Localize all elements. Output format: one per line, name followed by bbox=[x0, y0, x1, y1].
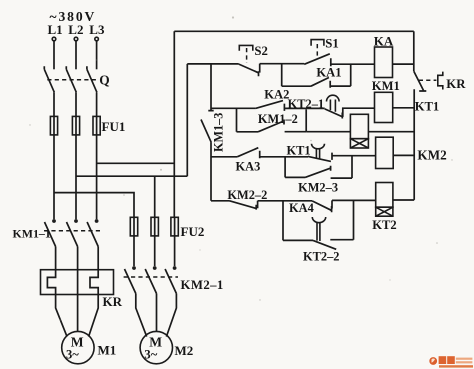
wire FU2 c to KM2-1 bbox=[174, 236, 176, 266]
wire S1 to KA coil bbox=[331, 63, 375, 65]
switch Q linkage bbox=[47, 79, 99, 81]
thermal contact KR bbox=[414, 71, 466, 91]
svg-text:KT1: KT1 bbox=[415, 100, 440, 114]
wire KT1 contact to KM2 coil bbox=[332, 155, 376, 157]
wire L2 drop to switch bbox=[75, 41, 77, 69]
wire L3 FU1 to KM1-1 bbox=[96, 135, 98, 219]
contact KA4 bbox=[289, 200, 376, 215]
wire left rail bbox=[186, 64, 188, 176]
wire L1 tap bus to FU2 a bbox=[54, 193, 134, 218]
timer coil KT2 bbox=[372, 183, 414, 232]
wire KA1 right riser bbox=[350, 64, 352, 86]
motor M2 bbox=[140, 331, 172, 363]
wire L3 to FU1 bbox=[96, 92, 98, 116]
wire control top bus bbox=[174, 30, 413, 32]
svg-text:KA1: KA1 bbox=[316, 66, 341, 80]
switch Q pole 3 bbox=[87, 66, 97, 92]
relay coil KA bbox=[374, 34, 414, 78]
contact KM2-2 bbox=[227, 188, 312, 210]
contactor KM2-1 linkage bbox=[124, 276, 178, 278]
wire L1 to FU1 bbox=[53, 92, 55, 116]
wire L3 tap bus to control feeder bbox=[97, 162, 175, 164]
svg-text:KM1–1: KM1–1 bbox=[13, 227, 51, 241]
svg-text:KR: KR bbox=[446, 77, 466, 91]
svg-text:L1: L1 bbox=[48, 22, 63, 37]
contactor KM1-1 pole 1 bbox=[45, 219, 56, 246]
motor M1 bbox=[62, 331, 94, 363]
KR heater phase 1 bbox=[47, 270, 55, 295]
svg-text:L2: L2 bbox=[68, 22, 83, 37]
wire FU2 b to KM2-1 bbox=[154, 236, 156, 266]
switch Q pole 2 bbox=[66, 66, 76, 92]
fuse FU2 b bbox=[151, 217, 158, 236]
svg-text:KM1: KM1 bbox=[372, 79, 400, 93]
wire KT1 rung bbox=[306, 131, 350, 133]
node L1 bbox=[48, 22, 63, 41]
wire rung1 from left rail bbox=[187, 63, 239, 65]
svg-text:KT2–1: KT2–1 bbox=[288, 97, 325, 111]
svg-text:KT2–2: KT2–2 bbox=[303, 249, 340, 263]
contact KM2-3 branch bbox=[285, 156, 352, 195]
fuse FU1 a bbox=[50, 116, 57, 134]
wire L1 drop to switch bbox=[53, 41, 55, 69]
contact KA2 bbox=[256, 87, 325, 111]
contact KA3 bbox=[236, 148, 309, 174]
wire L3 drop to switch bbox=[96, 41, 98, 69]
watermark logo bbox=[429, 356, 473, 367]
wire S2 to S1 bbox=[260, 63, 305, 65]
contact KM1-2 branch bbox=[237, 108, 307, 132]
switch Q pole 1 bbox=[44, 66, 54, 92]
wire right rail upper bbox=[413, 31, 415, 71]
wire KM2-1 to motor M2 bbox=[136, 294, 177, 337]
contactor KM1-1 pole 3 bbox=[87, 219, 98, 246]
wire junction rung2 to KT1 rung bbox=[305, 109, 307, 131]
svg-text:KA4: KA4 bbox=[289, 201, 314, 215]
wire L2 tap bus to left rail bbox=[76, 175, 187, 177]
svg-text:3~: 3~ bbox=[66, 347, 79, 361]
fuse FU2 c bbox=[171, 217, 178, 236]
timed contact KT2-1 bbox=[288, 95, 375, 118]
wire rung2 bbox=[211, 107, 256, 109]
svg-text:KM1–3: KM1–3 bbox=[212, 113, 226, 152]
wire rung3 bbox=[211, 156, 237, 158]
svg-text:S2: S2 bbox=[254, 44, 268, 58]
node L2 bbox=[68, 22, 83, 41]
svg-text:KT1: KT1 bbox=[287, 144, 311, 158]
svg-text:KR: KR bbox=[103, 294, 123, 309]
timed contact KT2-2 branch bbox=[283, 200, 354, 263]
wire rung4 bbox=[211, 200, 230, 202]
contactor KM2-1 pole 2 bbox=[145, 266, 156, 293]
node branch to KA1 bbox=[281, 64, 283, 86]
contactor KM1-1 linkage bbox=[44, 230, 100, 232]
svg-text:KT2: KT2 bbox=[372, 218, 397, 232]
wire control feeder riser / FU2 c feeder bbox=[173, 31, 175, 217]
contactor KM2-1 pole 3 bbox=[165, 266, 176, 293]
fuse FU1 b bbox=[72, 116, 79, 134]
wire right rail lower bbox=[413, 89, 415, 200]
svg-text:FU2: FU2 bbox=[181, 224, 205, 239]
timer coil KT1 bbox=[350, 100, 439, 148]
button S2 bbox=[239, 44, 268, 76]
wire KM1-1 to KR box bbox=[56, 247, 99, 270]
svg-text:M1: M1 bbox=[98, 343, 117, 358]
contactor KM2-1 pole 1 bbox=[125, 266, 136, 293]
svg-text:KA2: KA2 bbox=[264, 87, 289, 101]
svg-text:KM2–2: KM2–2 bbox=[227, 188, 267, 202]
fuse FU2 a bbox=[130, 217, 137, 236]
svg-text:KM2: KM2 bbox=[417, 148, 447, 163]
svg-text:FU1: FU1 bbox=[102, 119, 126, 134]
contact KA1 bbox=[282, 66, 351, 88]
KR heater phase 3 bbox=[90, 270, 98, 295]
contact KM1-3 branch bbox=[201, 64, 226, 201]
fuse FU1 c bbox=[93, 116, 100, 134]
svg-text:KA3: KA3 bbox=[236, 160, 261, 174]
svg-text:KM2–3: KM2–3 bbox=[298, 181, 338, 195]
svg-text:3~: 3~ bbox=[144, 347, 157, 361]
timed contact KT1 bbox=[287, 144, 333, 162]
svg-text:KM2–1: KM2–1 bbox=[181, 278, 224, 292]
wire KR to motor M1 bbox=[56, 295, 99, 337]
button S1 bbox=[304, 36, 339, 66]
KR heater phase 2 wire bbox=[77, 270, 79, 295]
contactor coil KM1 bbox=[372, 79, 414, 123]
svg-text:Q: Q bbox=[99, 73, 109, 88]
thermal relay KR box bbox=[41, 270, 114, 295]
wire FU2 a to KM2-1 bbox=[133, 236, 135, 266]
contactor KM1-1 pole 2 bbox=[67, 219, 78, 246]
node L3 bbox=[89, 22, 105, 41]
wire L2 to FU1 bbox=[75, 92, 77, 116]
svg-text:L3: L3 bbox=[89, 22, 105, 37]
wire FU2 b feeder bbox=[154, 176, 156, 217]
wire L1 FU1 to KM1-1 bbox=[53, 135, 55, 219]
svg-text:S1: S1 bbox=[325, 36, 339, 50]
svg-text:M2: M2 bbox=[175, 343, 194, 358]
contactor coil KM2 bbox=[376, 137, 448, 168]
wire L2 FU1 to KM1-1 bbox=[75, 135, 77, 219]
